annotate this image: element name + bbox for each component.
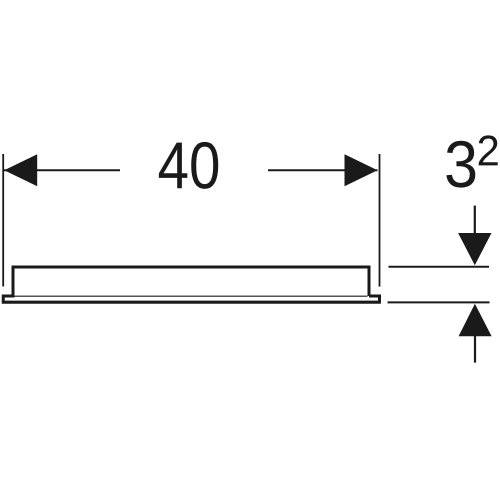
dimension label 3 bbox=[446, 141, 475, 188]
profile body outline bbox=[13, 267, 369, 297]
base plate outline bbox=[3, 296, 379, 302]
arrowhead left bbox=[4, 154, 37, 186]
extension line left bbox=[2, 154, 4, 287]
dimension label 40 bbox=[159, 142, 218, 189]
footnote superscript 2 bbox=[479, 135, 498, 165]
base plate top thin line bbox=[15, 295, 368, 297]
dimension line 40 right segment bbox=[268, 169, 378, 171]
down arrow stem bbox=[474, 206, 476, 235]
reference line bottom (thickness dim) bbox=[388, 301, 490, 303]
reference line top (thickness dim) bbox=[389, 266, 490, 268]
down arrowhead bbox=[458, 233, 491, 265]
up arrow stem bbox=[474, 336, 476, 363]
up arrowhead bbox=[459, 304, 492, 337]
extension line right bbox=[379, 154, 381, 287]
base plate bottom line bbox=[2, 301, 381, 304]
arrowhead right bbox=[345, 154, 378, 186]
dimension line 40 left segment bbox=[4, 169, 120, 171]
